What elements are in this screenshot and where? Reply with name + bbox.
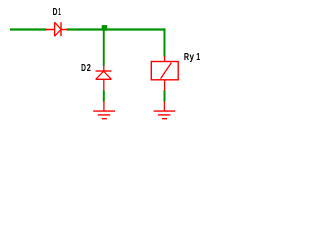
svg-text:D: D [81,63,86,74]
label D2 [81,63,91,74]
label D1 [53,7,61,18]
wire from D1 to corner and down to relay [67,28,166,30]
junction node [102,25,108,31]
svg-text:y: y [190,52,195,63]
svg-text:1: 1 [58,7,61,18]
wire vertical drop at corner to relay lead [163,29,165,57]
ground (below D2) [93,101,115,118]
diode D2 [96,66,112,91]
svg-text:2: 2 [87,63,91,74]
ground (below relay) [154,101,176,118]
wire junction to D2 [103,30,105,66]
wire D2 to ground [103,90,105,101]
label Ry1 [184,52,200,63]
diode D1 [46,22,67,36]
svg-text:1: 1 [196,52,200,63]
svg-text:D: D [53,7,58,18]
wire relay to ground [164,90,166,101]
wire left segment [10,28,47,30]
relay Ry1 [151,56,178,91]
